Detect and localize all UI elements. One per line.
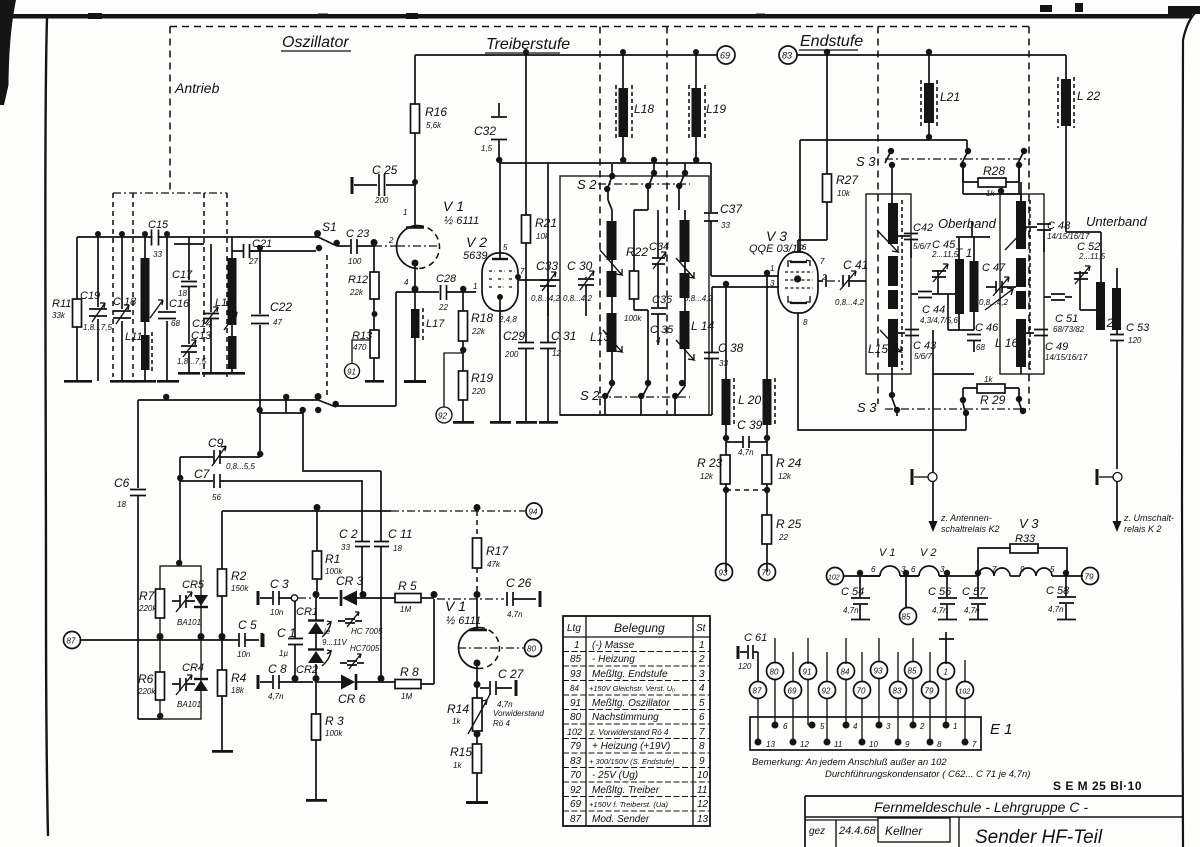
svg-text:gez: gez	[809, 826, 825, 837]
inductor L13 arrow	[600, 250, 622, 352]
svg-text:33k: 33k	[52, 311, 66, 320]
capacitor HC7005 lower	[340, 661, 364, 665]
svg-text:91: 91	[347, 368, 356, 377]
diode CR6 bar	[355, 674, 358, 690]
switch S3 bottom unit1	[889, 392, 900, 413]
svg-text:CR1: CR1	[296, 606, 318, 618]
Treiberstufe inner dashed vertical right	[666, 27, 668, 415]
resistor R17	[473, 538, 482, 568]
svg-text:5: 5	[820, 722, 825, 731]
inductor L15 bar4	[888, 319, 898, 367]
svg-text:V 1: V 1	[879, 547, 896, 559]
svg-text:R19: R19	[471, 371, 493, 385]
svg-text:70: 70	[570, 770, 582, 781]
resistor R23	[721, 455, 731, 484]
stub above 93e	[878, 638, 880, 662]
ground bar C31	[539, 421, 558, 424]
wire R5 to V1	[421, 597, 434, 599]
Endstufe dashed vertical left	[877, 27, 879, 405]
wire C14 column	[210, 244, 212, 373]
svg-text:Sender HF-Teil: Sender HF-Teil	[975, 827, 1103, 847]
wire C19 column	[97, 237, 99, 381]
svg-text:4,7n: 4,7n	[932, 606, 948, 615]
inductor L11 upper bar	[141, 258, 150, 322]
resistor R27	[823, 174, 832, 202]
terminal circle 70	[759, 564, 776, 581]
svg-text:18: 18	[117, 500, 126, 509]
terminal 1 T bar	[939, 632, 954, 664]
inductor L13 bar3	[607, 313, 617, 352]
E1 lead 83	[897, 698, 899, 743]
E1 lead 102	[964, 698, 966, 743]
capacitor C44	[911, 292, 938, 298]
capacitor C14 trimmer	[203, 314, 219, 319]
capacitor C45 trimmer	[932, 270, 946, 294]
transformer T2 left bar	[1096, 282, 1105, 330]
terminal circle 70e	[854, 682, 871, 699]
svg-text:1µ: 1µ	[279, 649, 288, 658]
svg-text:3: 3	[940, 565, 945, 574]
switch S2 bottom unit3 lever	[675, 386, 685, 415]
capacitor C26	[507, 592, 536, 606]
E1 lead 80	[774, 679, 776, 726]
svg-text:220: 220	[471, 387, 486, 396]
diode CR2 arrow	[322, 650, 331, 666]
svg-text:- Heizung: - Heizung	[592, 654, 635, 665]
svg-text:V 1: V 1	[445, 598, 466, 614]
resistor R4	[218, 670, 227, 696]
resistor R6	[156, 672, 165, 700]
wire L20 left column	[725, 287, 727, 438]
svg-text:L18: L18	[634, 102, 654, 116]
svg-text:C 44: C 44	[922, 304, 945, 316]
svg-text:69: 69	[720, 51, 730, 61]
capacitor C36	[651, 275, 666, 326]
svg-text:4,7n: 4,7n	[1048, 605, 1064, 614]
wire C17 subrail	[174, 237, 204, 244]
capacitor C15 gap	[153, 231, 158, 244]
resistor R29	[977, 384, 1005, 393]
svg-text:4,7n: 4,7n	[964, 606, 980, 615]
svg-text:C33: C33	[536, 259, 558, 273]
diode CR3	[342, 591, 357, 606]
title block left edge	[804, 796, 806, 847]
svg-text:1: 1	[473, 282, 477, 291]
dashed box L17	[422, 308, 424, 340]
inductor L15 bar2	[888, 256, 898, 286]
capacitor C42	[898, 234, 918, 259]
inductor L20 left bar	[722, 379, 731, 425]
svg-text:22k: 22k	[349, 288, 364, 297]
terminal circle 93	[716, 564, 733, 581]
svg-text:HC7005: HC7005	[350, 644, 380, 653]
tube V1 cathode node	[412, 260, 419, 267]
node S1 lever end	[334, 240, 340, 246]
svg-text:C 47: C 47	[982, 262, 1006, 274]
node V3 grid	[764, 270, 770, 276]
E1 lead 93	[878, 678, 880, 726]
tube V1b plate bar	[469, 629, 487, 632]
terminal circle 93e	[871, 662, 888, 679]
resistor R1	[313, 551, 322, 579]
node plate rail	[496, 157, 699, 163]
tube V2 inner grid dashes	[489, 271, 515, 287]
svg-text:1k: 1k	[984, 375, 993, 384]
ground bar R11	[64, 380, 92, 383]
capacitor C30 arrow	[580, 271, 594, 290]
svg-text:C14: C14	[192, 318, 212, 330]
wire V1 grid down	[336, 292, 396, 406]
diode CR4 bar	[194, 678, 208, 680]
svg-text:L19: L19	[706, 102, 726, 116]
tube V3 envelope	[778, 252, 818, 313]
svg-text:C 11: C 11	[388, 527, 412, 541]
wire L17 column	[414, 292, 416, 381]
svg-text:C 51: C 51	[1055, 313, 1078, 325]
svg-text:+150V f. Treiberst. (Ua): +150V f. Treiberst. (Ua)	[589, 800, 668, 809]
transformer T1 top stem	[956, 222, 990, 237]
switch S2 bottom unit2	[638, 380, 651, 399]
svg-text:3: 3	[901, 565, 906, 574]
svg-text:1k: 1k	[453, 761, 462, 770]
svg-text:12k: 12k	[700, 472, 714, 481]
svg-text:9...11V: 9...11V	[322, 638, 347, 647]
switch S2 bottom dashdot	[598, 396, 690, 398]
wire C38 grid line	[712, 287, 779, 415]
svg-text:Mod. Sender: Mod. Sender	[592, 814, 650, 825]
ground bar C13	[178, 372, 200, 375]
capacitor C19 trimmer	[89, 309, 107, 316]
varactor CR5 arrow	[176, 592, 192, 612]
svg-text:z. Umschalt-: z. Umschalt-	[1123, 513, 1174, 523]
svg-text:3: 3	[699, 669, 705, 680]
svg-text:22: 22	[438, 303, 448, 312]
table column line 1	[585, 616, 587, 826]
svg-text:R11: R11	[52, 298, 71, 310]
ground bar R19	[453, 421, 474, 424]
svg-text:13: 13	[766, 740, 775, 749]
svg-text:10: 10	[869, 740, 878, 749]
capacitor C8	[260, 675, 313, 689]
inductor L18 lead top	[622, 55, 624, 89]
svg-text:R27: R27	[836, 173, 859, 187]
svg-text:½ 6111: ½ 6111	[444, 215, 479, 227]
svg-text:C16: C16	[169, 298, 190, 310]
svg-text:1: 1	[699, 640, 705, 651]
capacitor C53	[1110, 335, 1124, 470]
antenna terminal link	[914, 476, 928, 478]
node CR6 right	[378, 675, 385, 682]
svg-text:1M: 1M	[401, 692, 412, 701]
wire L22 column	[1065, 55, 1067, 232]
top line blobs	[88, 13, 765, 19]
inductor L15 bar1	[888, 203, 898, 244]
resistor R22	[630, 271, 639, 299]
inductor L21	[924, 83, 934, 123]
varactor CR4 plates	[172, 678, 195, 691]
capacitor C19 arrow	[92, 303, 105, 322]
svg-text:4: 4	[853, 722, 858, 731]
diode CR6	[341, 675, 355, 690]
svg-text:CR 3: CR 3	[336, 574, 364, 588]
wire L11 column	[144, 237, 146, 381]
svg-text:L 14: L 14	[691, 319, 714, 333]
capacitor C27	[490, 681, 512, 695]
svg-text:6: 6	[871, 565, 876, 574]
svg-text:3: 3	[770, 279, 775, 288]
wire R24 column	[766, 442, 768, 572]
svg-text:4: 4	[699, 683, 705, 694]
svg-text:18k: 18k	[231, 686, 245, 695]
wire endstufe mid bus	[891, 374, 893, 398]
dashed box L22	[1058, 77, 1074, 128]
svg-text:QQE 03/12: QQE 03/12	[749, 243, 804, 255]
node R23 R24 bottom	[723, 487, 770, 493]
svg-text:5639: 5639	[463, 250, 487, 262]
diode CR5 bar	[194, 606, 208, 608]
terminal circle 102h	[827, 568, 844, 585]
switch S2 bottom unit1 lever	[605, 386, 612, 415]
switch S1 gang dashed link	[326, 255, 328, 396]
switch S3 top unit3 lever	[1017, 151, 1024, 182]
capacitor C9	[214, 450, 260, 464]
capacitor C46	[967, 335, 981, 353]
transformer T2 right bar	[1112, 288, 1121, 330]
wire T2 connections	[1066, 232, 1117, 334]
wire C22 column	[259, 251, 261, 457]
svg-text:27: 27	[248, 257, 258, 266]
terminal circle 87e	[750, 682, 767, 699]
dashed box L20	[734, 378, 775, 427]
svg-text:24.4.68: 24.4.68	[838, 825, 877, 837]
svg-text:33: 33	[153, 250, 162, 259]
svg-text:120: 120	[738, 662, 752, 671]
svg-text:12: 12	[800, 740, 809, 749]
title Kellner box	[878, 818, 950, 842]
svg-text:93: 93	[719, 569, 728, 578]
wire R3 column	[315, 682, 317, 799]
resistor R15	[473, 744, 482, 773]
terminal circle 92	[436, 407, 452, 423]
switch S3 top unit2	[960, 148, 971, 168]
antenna terminal T bar	[911, 469, 914, 485]
svg-text:S 2: S 2	[580, 388, 600, 403]
svg-text:R 25: R 25	[776, 517, 802, 531]
svg-text:33: 33	[341, 543, 350, 552]
E1 lead 69	[792, 698, 794, 743]
svg-text:V 3: V 3	[1019, 516, 1039, 531]
umschalt arrowhead	[1113, 521, 1122, 532]
switch S3 bottom unit2 lever	[963, 388, 966, 430]
svg-text:Meßltg. Treiber: Meßltg. Treiber	[592, 785, 660, 796]
wire T1 connections	[938, 237, 974, 330]
svg-text:56: 56	[212, 493, 221, 502]
svg-text:C 46: C 46	[975, 322, 999, 334]
capacitor C11	[374, 531, 389, 682]
table header underline	[563, 636, 710, 638]
svg-text:C 1: C 1	[277, 626, 296, 640]
tank dashed vertical 4	[226, 193, 228, 377]
svg-text:C 27: C 27	[498, 667, 525, 681]
border frame top right blobs	[1040, 3, 1200, 14]
inductor L11 arrow	[150, 300, 163, 318]
node CR3 right	[360, 591, 367, 598]
svg-text:33: 33	[721, 221, 730, 230]
svg-text:C22: C22	[270, 300, 292, 314]
svg-text:80: 80	[570, 712, 582, 723]
wire T1 secondary link	[933, 330, 974, 374]
svg-text:C 23: C 23	[346, 228, 370, 240]
svg-text:5: 5	[699, 698, 705, 709]
wire CR3 to R5	[357, 597, 395, 599]
svg-text:470: 470	[353, 343, 367, 352]
wire R14 R15	[476, 731, 478, 744]
svg-text:C 35: C 35	[650, 324, 674, 336]
svg-text:7: 7	[520, 267, 525, 276]
tube V3 plate lead up	[799, 140, 801, 252]
svg-text:je: je	[323, 627, 331, 636]
table row lines	[563, 652, 710, 812]
svg-text:Meßltg. Oszillator: Meßltg. Oszillator	[592, 698, 670, 709]
svg-text:C17: C17	[172, 269, 193, 281]
svg-text:C19: C19	[80, 290, 100, 302]
svg-text:22: 22	[778, 533, 788, 542]
wire treiber plate rail	[499, 162, 711, 164]
svg-text:C7: C7	[194, 467, 211, 481]
svg-text:C 2: C 2	[339, 527, 358, 541]
terminal circle 79e	[922, 682, 939, 699]
node second bus left	[257, 407, 322, 413]
svg-text:Oszillator: Oszillator	[282, 34, 349, 51]
stub above 83e	[897, 652, 899, 681]
wire to terminal 92	[444, 353, 463, 407]
tube V1 plate bar	[406, 226, 424, 229]
heater coil V3b	[1020, 568, 1083, 576]
svg-text:schaltrelais K2: schaltrelais K2	[941, 524, 1000, 534]
resistor R14 wiper	[468, 694, 490, 734]
wire S1 pole2 bus	[138, 399, 318, 401]
tube V3 inner top bar	[790, 261, 807, 263]
resistor R19	[459, 371, 468, 400]
svg-text:z. Vorwiderstand Rö 4: z. Vorwiderstand Rö 4	[589, 728, 669, 737]
svg-text:T 1: T 1	[955, 246, 972, 260]
svg-text:6: 6	[783, 722, 788, 731]
terminal circle 85e	[905, 662, 922, 679]
ground bar C18	[110, 380, 136, 383]
tube V1b grid dashdot to 80	[458, 647, 524, 649]
svg-text:R7: R7	[139, 589, 156, 603]
svg-text:C 26: C 26	[506, 576, 532, 590]
tube V1b envelope dashed	[479, 628, 500, 669]
svg-text:C6: C6	[114, 476, 130, 490]
capacitor C51	[1044, 294, 1072, 300]
svg-text:C28: C28	[436, 273, 457, 285]
inductor L19	[692, 88, 702, 137]
svg-text:79: 79	[570, 741, 582, 752]
capacitor C47 arrow	[993, 277, 1009, 296]
terminal circle 83	[779, 46, 797, 64]
wire R23 column	[725, 442, 727, 572]
svg-text:½ 6111: ½ 6111	[446, 615, 481, 627]
svg-text:200: 200	[504, 350, 519, 359]
ground bar R15	[466, 801, 488, 804]
svg-text:85: 85	[902, 613, 911, 622]
border frame left vertical line	[45, 18, 48, 836]
inductor L17	[411, 309, 420, 338]
node V2 pin7	[515, 274, 521, 280]
switch S2 unit3 top	[676, 170, 688, 189]
wire 85 stub	[905, 576, 907, 608]
svg-text:4: 4	[656, 336, 661, 345]
title block top line	[805, 795, 1183, 797]
svg-text:(-) Masse: (-) Masse	[592, 640, 635, 651]
capacitor C22	[251, 316, 269, 324]
svg-text:87: 87	[67, 637, 76, 646]
tube V3 inner brackets	[788, 260, 810, 302]
ground bar L12	[221, 372, 245, 375]
svg-text:C 54: C 54	[841, 586, 864, 598]
switch S3 top unit2 lever	[961, 151, 968, 182]
tank dashed vertical 3	[203, 193, 205, 377]
tube V3 inner bottom bar	[790, 302, 807, 304]
inductor L16 bar3	[1016, 291, 1026, 309]
svg-text:0,8...5,5: 0,8...5,5	[226, 462, 255, 471]
node C39	[723, 435, 770, 441]
terminal circle 91e	[800, 663, 817, 680]
svg-text:83: 83	[570, 756, 582, 767]
svg-text:13: 13	[697, 814, 709, 825]
resistor R14 potentiometer	[473, 698, 483, 731]
stub above 80e	[774, 638, 776, 663]
capacitor HC7005 upper arrow	[347, 612, 359, 627]
tube V3 inner dot	[794, 275, 801, 282]
svg-text:C 8: C 8	[268, 662, 287, 676]
svg-text:R21: R21	[535, 216, 557, 230]
svg-text:79: 79	[1085, 573, 1094, 582]
node C3 open	[291, 595, 297, 601]
svg-text:R 3: R 3	[325, 714, 344, 728]
inductor L12 arrow	[224, 312, 237, 330]
svg-text:Antrieb: Antrieb	[174, 80, 220, 96]
svg-text:8: 8	[937, 740, 942, 749]
E1 lead 87	[757, 698, 759, 743]
wire R12 column	[373, 246, 375, 381]
svg-text:Bemerkung: An jedem Anschluß: Bemerkung: An jedem Anschluß außer an 10…	[752, 757, 947, 768]
svg-text:92: 92	[570, 785, 582, 796]
terminal circle 1e	[938, 663, 955, 680]
wire C17 column	[188, 244, 190, 373]
wire S1 to C23	[337, 245, 350, 247]
tube V1b envelope	[459, 628, 480, 669]
tube V1b cathode lead	[476, 666, 478, 698]
svg-text:Meßltg. Endstufe: Meßltg. Endstufe	[592, 669, 668, 680]
svg-text:Unterband: Unterband	[1086, 214, 1147, 229]
capacitor C7	[214, 474, 258, 488]
svg-text:47: 47	[273, 318, 282, 327]
svg-text:83: 83	[782, 51, 792, 61]
capacitor C54	[851, 576, 870, 620]
wire C6 column	[138, 400, 160, 719]
switch S3 bottom unit1 lever	[892, 398, 897, 416]
antenna terminal circle	[928, 473, 937, 482]
svg-text:93: 93	[874, 667, 883, 676]
wire V2 pin7 out	[518, 279, 560, 281]
inductor L22	[1061, 79, 1071, 126]
svg-text:R33: R33	[1015, 533, 1036, 545]
svg-text:4,7n: 4,7n	[268, 692, 284, 701]
oscillator tank dash-dot box top	[113, 192, 227, 194]
resistor R7	[156, 589, 165, 618]
